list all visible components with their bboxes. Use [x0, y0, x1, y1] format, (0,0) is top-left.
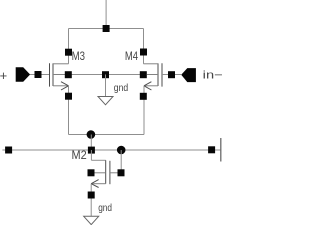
- transistor M4: [144, 63, 163, 90]
- svg-text:gnd: gnd: [98, 203, 112, 214]
- wire bulk rail M3 to M4: [65, 74, 147, 76]
- pin M2 bulk: [88, 169, 95, 176]
- wire tail to rail: [90, 135, 92, 151]
- pin M3 drain: [65, 49, 72, 56]
- node top junction: [103, 25, 110, 32]
- port arrow in- input: [181, 68, 196, 82]
- terminal bar right: [220, 138, 222, 162]
- wire M3 source down: [68, 86, 70, 135]
- wire M2 source down: [90, 184, 92, 217]
- wire M2 drain route right: [91, 159, 105, 161]
- svg-text:in−: in−: [203, 70, 223, 82]
- wire + input to M3 gate: [30, 74, 50, 76]
- pin M4 source: [140, 93, 147, 100]
- pin M4 drain: [140, 49, 147, 56]
- wire bias rail: [2, 149, 220, 151]
- svg-text:M3: M3: [72, 51, 85, 63]
- wire tail horizontal: [69, 134, 145, 136]
- ground symbol bottom: [84, 216, 99, 224]
- pin M2 drain: [88, 147, 95, 154]
- pin M4 gate: [168, 71, 175, 78]
- wire rail dot to M2 gate: [120, 150, 122, 173]
- pin M2 gate: [118, 169, 125, 176]
- node tail junction dot: [87, 130, 96, 139]
- port arrow + input: [16, 67, 30, 81]
- pin rail left: [5, 147, 12, 154]
- pin M2 source: [88, 192, 95, 199]
- pin M4 bulk: [140, 71, 147, 78]
- pin rail right: [208, 146, 215, 153]
- wire M4 gate lead: [162, 74, 181, 76]
- pin gnd tap: [102, 71, 109, 78]
- transistor M3: [50, 63, 69, 90]
- pin M3 source: [65, 93, 72, 100]
- wire gnd stub: [105, 75, 107, 97]
- svg-text:+: +: [0, 68, 7, 83]
- wire M2 drain route down: [90, 150, 92, 160]
- svg-text:M4: M4: [125, 51, 139, 63]
- wire right drop to M4 drain: [143, 29, 145, 64]
- wire top rail: [69, 28, 144, 30]
- wire left drop to M3 drain: [68, 29, 70, 64]
- svg-text:gnd: gnd: [114, 83, 128, 94]
- transistor M2: [91, 160, 117, 187]
- wire M4 source down: [143, 86, 145, 135]
- node rail junction dot: [117, 146, 126, 155]
- svg-text:M2: M2: [72, 150, 87, 162]
- pin M3 bulk: [65, 71, 72, 78]
- wire vdd stub to top edge: [105, 0, 107, 29]
- ground symbol mid: [98, 97, 113, 105]
- pin M3 gate: [35, 71, 42, 78]
